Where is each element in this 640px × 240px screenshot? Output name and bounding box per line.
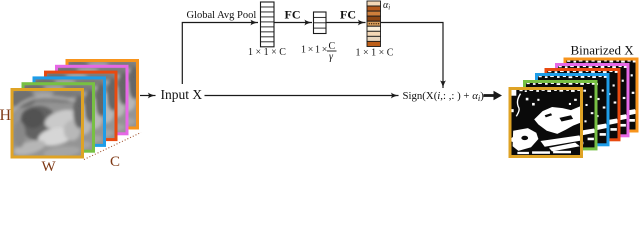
vector V2 (1x1xC/g) [314,12,327,34]
svg-text:αi: αi [383,0,390,12]
alpha vector (colored) [367,1,381,47]
right stack slice 2 (green frame) [525,82,597,149]
right stack slice 1 (front, gold frame) [510,89,582,157]
wire branch up from Input X [182,23,258,85]
right stack slice 4 (red frame) [546,70,619,140]
main horizontal arrow Input X to Sign [205,95,399,97]
svg-text:Input X: Input X [161,87,203,102]
arrow V1 to V2 [275,22,313,24]
svg-text:FC: FC [285,8,301,22]
svg-text:FC: FC [340,8,356,22]
left stack slice 4 (red frame) [42,72,119,141]
svg-text:Sign(X(i,: ,: ) + αi): Sign(X(i,: ,: ) + αi) [403,90,485,103]
vector V1 (1x1xC) [261,2,275,47]
arrow V2 to alpha vector [327,22,366,24]
svg-text:Binarized X: Binarized X [571,43,635,58]
right stack slice 6 (back, orange frame) [565,59,637,131]
right stack slice 5 (magenta frame) [557,65,629,136]
svg-text:γ: γ [329,52,334,63]
svg-text:C: C [110,154,120,170]
svg-text:1 × 1 × C: 1 × 1 × C [356,48,394,59]
arrow stack to Input X [140,95,156,97]
svg-text:H: H [0,107,12,124]
left stack slice 2 (green frame) [20,84,97,153]
dotted depth line C [84,133,141,160]
right stack slice 3 (blue frame) [537,75,609,145]
left stack slice 6 (back, orange frame) [64,61,141,130]
left stack slice 1 (front, gold frame) [9,90,86,159]
label 1x1xC/gamma [301,41,337,63]
svg-text:1 × 1 ×: 1 × 1 × [301,45,327,56]
wire alpha vector to Sign (right angle down) [381,23,443,89]
svg-text:Global Avg Pool: Global Avg Pool [187,10,257,21]
left stack slice 5 (magenta frame) [53,66,130,135]
bold arrow to binarized stack [484,91,503,101]
svg-text:1 × 1 × C: 1 × 1 × C [248,47,286,58]
left stack slice 3 (blue frame) [31,78,108,147]
svg-text:C: C [329,41,336,52]
svg-text:W: W [42,159,57,171]
